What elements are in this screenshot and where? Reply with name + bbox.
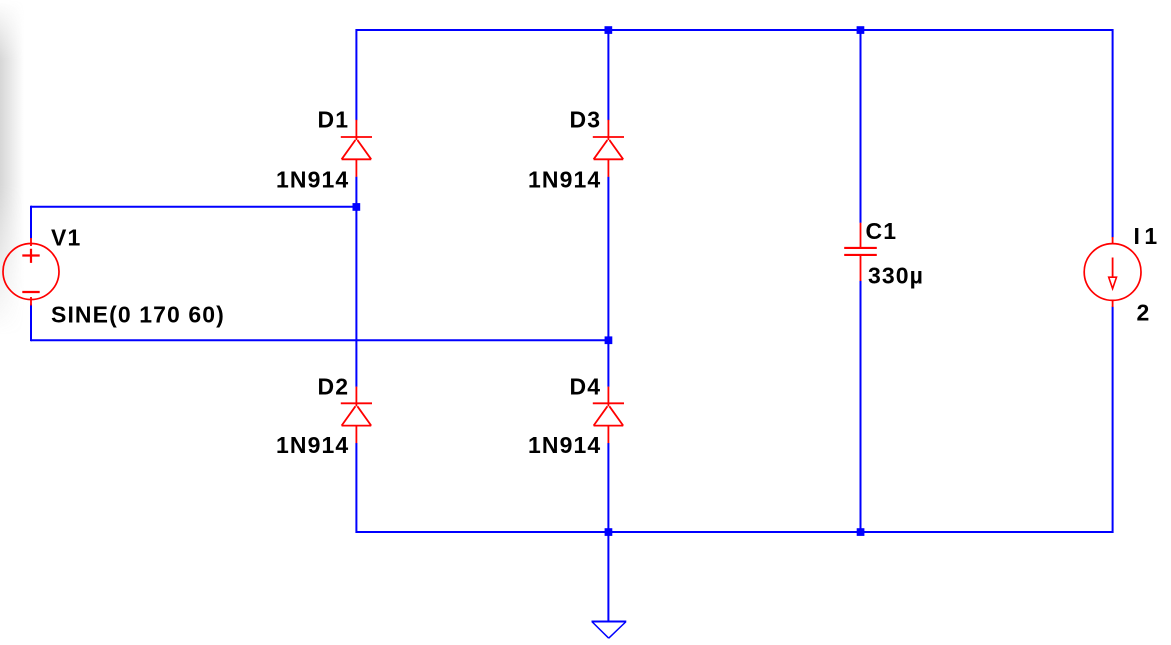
svg-text:D1: D1 xyxy=(318,107,350,133)
diode D1 xyxy=(341,120,372,177)
left window-edge shading xyxy=(0,0,24,360)
wire left branch lower (D2 to bottom rail) xyxy=(355,443,357,533)
wire V1 top (V1 to left branch) xyxy=(31,206,356,208)
svg-text:I1: I1 xyxy=(1134,223,1162,249)
svg-text:1N914: 1N914 xyxy=(528,167,601,193)
node junction V1 top / left branch xyxy=(353,203,361,211)
wire left branch middle (D1 to D2) xyxy=(355,177,357,387)
wire V1 bottom (V1 to middle branch) xyxy=(31,339,608,341)
svg-text:1N914: 1N914 xyxy=(276,167,349,193)
diode D3 xyxy=(593,120,624,177)
wire bottom rail xyxy=(356,531,1112,533)
voltage source V1 xyxy=(3,238,59,306)
current source I1 xyxy=(1084,237,1141,307)
svg-text:V1: V1 xyxy=(51,224,81,250)
wire middle branch lower (D4 to bottom rail) xyxy=(607,443,609,532)
node junction bottom rail / C1 branch xyxy=(857,528,865,536)
svg-text:D3: D3 xyxy=(570,107,602,133)
wire top rail xyxy=(356,29,1112,31)
capacitor C1 xyxy=(844,223,877,281)
svg-text:D4: D4 xyxy=(570,374,602,400)
node junction V1 bottom / middle branch xyxy=(605,336,613,344)
svg-text:C1: C1 xyxy=(866,218,898,244)
node junction top rail / D3 branch xyxy=(605,26,613,34)
wire V1 left upper xyxy=(30,206,32,239)
wire right vertical lower (from I1) xyxy=(1112,307,1114,534)
wire left branch upper (top rail to D1) xyxy=(355,29,357,120)
wire ground lead xyxy=(607,532,609,621)
wire middle branch upper (top rail to D3) xyxy=(607,29,609,120)
wire C1 branch upper xyxy=(860,29,862,223)
svg-text:2: 2 xyxy=(1137,299,1151,325)
wire V1 left lower xyxy=(30,305,32,342)
diode D2 xyxy=(341,387,372,444)
svg-text:SINE(0 170 60): SINE(0 170 60) xyxy=(51,301,225,327)
wire right vertical upper (to I1) xyxy=(1112,29,1114,238)
svg-text:D2: D2 xyxy=(318,374,350,400)
wire middle branch middle (D3 to D4) xyxy=(607,177,609,387)
svg-text:330µ: 330µ xyxy=(868,262,924,288)
ground xyxy=(592,622,627,639)
svg-text:1N914: 1N914 xyxy=(276,432,349,458)
node junction top rail / C1 branch xyxy=(857,26,865,34)
wire C1 branch lower xyxy=(860,281,862,533)
node junction bottom rail / ground xyxy=(605,528,613,536)
svg-text:1N914: 1N914 xyxy=(528,432,601,458)
diode D4 xyxy=(593,387,624,444)
